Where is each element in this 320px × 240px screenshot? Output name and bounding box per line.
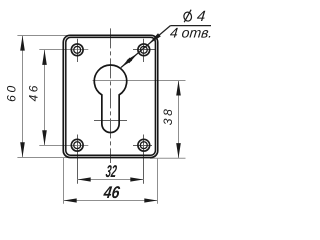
- dimension line 32: [78, 179, 144, 181]
- dimension line 46 left: [44, 50, 46, 146]
- leader arrow at hole upper-right: [148, 33, 161, 44]
- extension line 38 bottom: [150, 157, 186, 159]
- arrow 38 top: [176, 81, 181, 96]
- screw hole BR inner: [140, 142, 147, 149]
- extension line 60 bottom: [17, 157, 72, 159]
- arrow 60 bottom: [20, 142, 25, 157]
- callout leader diagonal line: [121, 26, 170, 68]
- svg-text:60: 60: [5, 85, 19, 101]
- dimension line 46 bottom: [64, 200, 158, 202]
- keyhole slot-end horizontal centerline: [94, 120, 127, 122]
- plate outer outline: [63, 35, 157, 157]
- screw hole BL inner: [74, 142, 81, 149]
- extension line 46-left top / hole TL horizontal centerline: [39, 49, 88, 51]
- callout leader shelf: [170, 25, 211, 27]
- screw hole TL outer: [71, 44, 83, 56]
- arrow 46B right: [144, 198, 157, 202]
- extension line 60 top: [17, 35, 72, 37]
- extension line 46-bottom right: [157, 158, 159, 204]
- dimension line 38: [178, 80, 180, 158]
- leader arrow at hole lower-left: [127, 53, 138, 63]
- keyhole euro profile cutout: [94, 65, 126, 133]
- hole BL vertical centerline / extension line 32 left: [77, 135, 79, 184]
- screw hole TR outer: [138, 44, 150, 56]
- keyhole horizontal centerline / extension line 38 top: [93, 80, 186, 82]
- arrow 46B left: [64, 198, 77, 202]
- svg-text:46: 46: [102, 183, 121, 202]
- hole TL vertical centerline: [77, 39, 79, 62]
- svg-text:38: 38: [161, 109, 175, 125]
- plate vertical axis centerline: [110, 28, 112, 163]
- arrow 32 left: [78, 177, 91, 181]
- screw hole TL inner: [74, 46, 81, 53]
- svg-text:32: 32: [105, 162, 118, 181]
- hole TR horizontal centerline: [133, 49, 156, 51]
- arrow 32 right: [130, 177, 143, 181]
- screw hole BL outer: [71, 139, 83, 151]
- screw hole TR inner: [140, 46, 147, 53]
- hole TR vertical centerline: [143, 39, 145, 62]
- extension line 46-left bottom / hole BL horizontal centerline: [39, 145, 88, 147]
- screw hole BR outer: [138, 139, 150, 151]
- plate inner outline: [66, 37, 156, 155]
- svg-text:4 отв.: 4 отв.: [169, 25, 213, 41]
- label diameter symbol: [183, 10, 192, 23]
- arrow 46L bottom: [42, 130, 47, 145]
- arrow 60 top: [20, 36, 25, 51]
- extension line 46-bottom left: [63, 158, 65, 204]
- arrow 38 bottom: [176, 143, 181, 158]
- arrow 46L top: [42, 50, 47, 65]
- dimension line 60: [22, 36, 24, 158]
- hole BR vertical centerline / extension line 32 right: [143, 135, 145, 184]
- leader arrow at keyhole circle: [121, 58, 132, 68]
- svg-text:46: 46: [27, 85, 41, 101]
- hole BR horizontal centerline: [133, 145, 152, 147]
- svg-text:4: 4: [196, 8, 206, 25]
